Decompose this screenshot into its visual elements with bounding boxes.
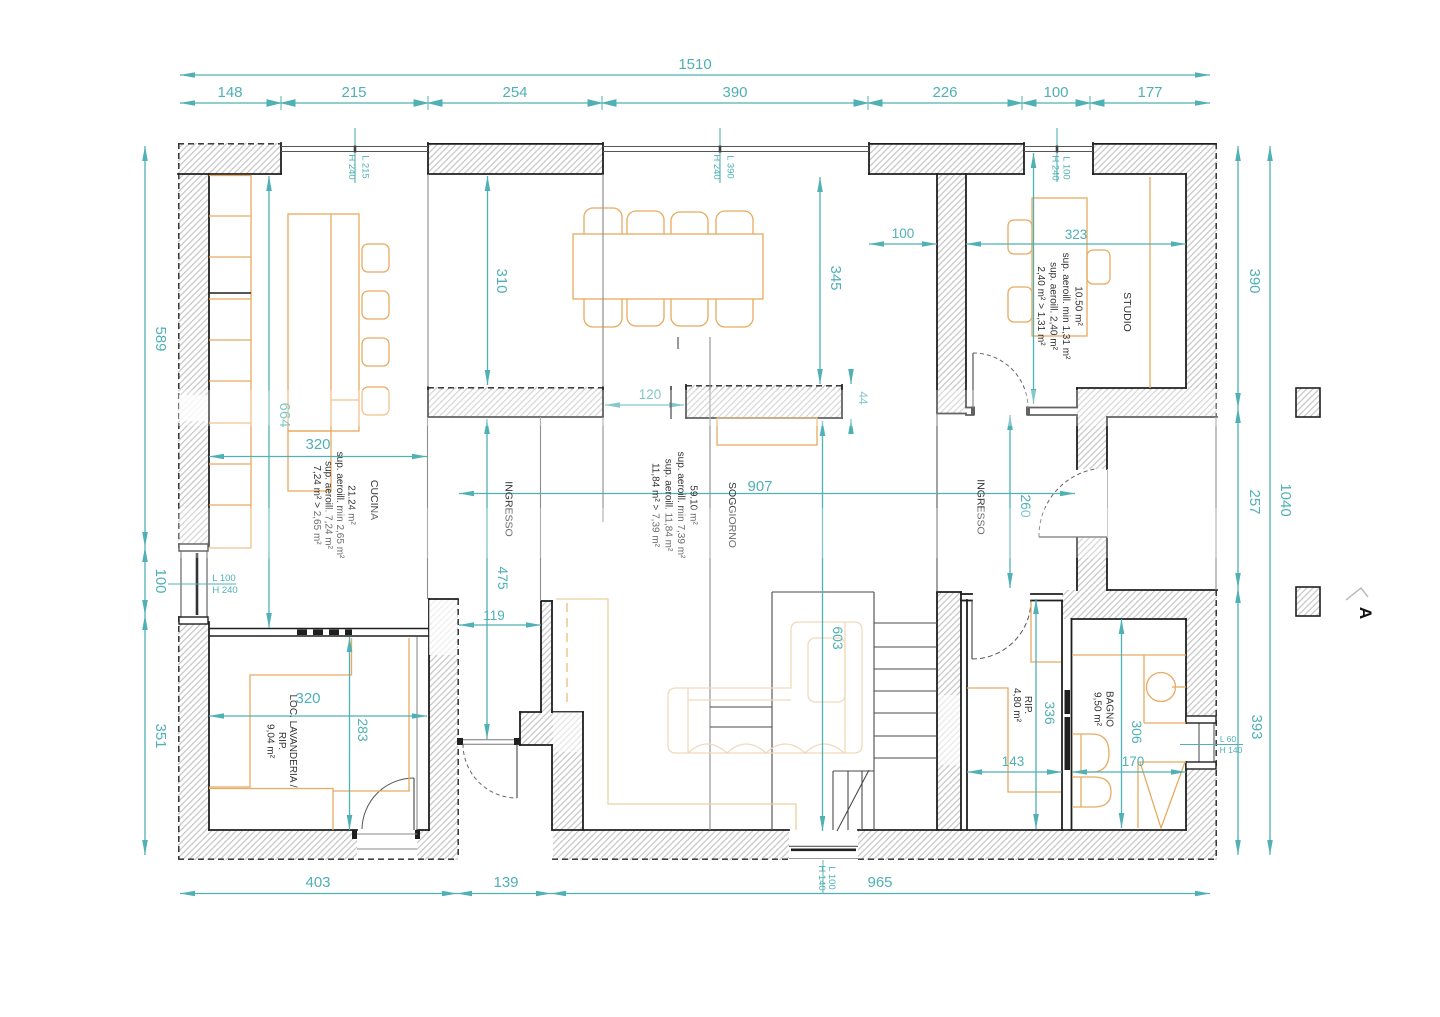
svg-text:BAGNO: BAGNO — [1104, 691, 1115, 727]
svg-text:sup. aeroill. 2,40 m²: sup. aeroill. 2,40 m² — [1048, 262, 1059, 350]
svg-text:403: 403 — [305, 874, 330, 891]
svg-text:320: 320 — [295, 690, 320, 707]
wall niche column upper — [1077, 417, 1107, 469]
interior dims — [209, 153, 1186, 831]
dim 1510 — [180, 74, 1210, 76]
wall bottom main — [553, 830, 789, 860]
svg-text:170: 170 — [1122, 754, 1145, 769]
svg-text:143: 143 — [1002, 754, 1025, 769]
treads upper flight — [874, 622, 937, 624]
outer edge bottom-left — [178, 858, 458, 860]
window end caps — [179, 544, 1216, 769]
svg-text:1510: 1510 — [678, 56, 711, 73]
boundary dining/soggiorno — [602, 174, 604, 387]
svg-text:100: 100 — [892, 226, 915, 241]
rip counters — [967, 602, 1061, 792]
svg-text:10.50 m²: 10.50 m² — [1073, 286, 1084, 326]
svg-text:306: 306 — [1129, 720, 1145, 744]
RIP west inner face — [966, 600, 968, 830]
wall bagno top mass — [1062, 590, 1217, 619]
svg-text:100: 100 — [1043, 84, 1068, 101]
outer edge top (top-left block dashed) — [178, 143, 281, 145]
svg-text:LOC. LAVANDERIA /: LOC. LAVANDERIA / — [287, 695, 298, 788]
svg-text:9,04 m²: 9,04 m² — [265, 724, 276, 759]
inner face top wall — [178, 173, 281, 175]
kitchen island — [288, 214, 359, 431]
bagno top face — [1072, 618, 1187, 620]
svg-text:H 240: H 240 — [1050, 155, 1061, 180]
svg-text:215: 215 — [341, 84, 366, 101]
svg-text:390: 390 — [722, 84, 747, 101]
window L60 bagno right wall — [1198, 723, 1200, 762]
shelf rungs — [710, 706, 772, 708]
inner face left wall — [208, 174, 210, 546]
svg-text:H 140: H 140 — [816, 865, 827, 890]
svg-text:RIP.: RIP. — [1022, 696, 1033, 714]
svg-text:L 100: L 100 — [1061, 156, 1072, 179]
studio desk — [1008, 177, 1150, 388]
outer edge left — [178, 143, 180, 548]
boundary kitchen/dining upper — [427, 174, 429, 387]
bottom wall inner face — [553, 829, 789, 831]
svg-text:L 60: L 60 — [1220, 734, 1237, 744]
extension tick below table — [677, 337, 679, 349]
dining table — [573, 234, 763, 299]
wall bottom-left west of door — [178, 830, 357, 860]
window labels — [168, 128, 1243, 893]
bidet — [1072, 777, 1111, 807]
svg-text:226: 226 — [932, 84, 957, 101]
RIP top thin wall — [961, 593, 972, 595]
mid wall left top edge dashed — [428, 387, 603, 389]
window L390 top — [603, 146, 869, 148]
outer edge lavanderia right (porch side) — [457, 599, 459, 859]
wall T ingresso2 upper — [937, 143, 966, 413]
stair cut diagonal — [837, 770, 869, 831]
kitchen counter left — [209, 176, 251, 549]
door niche/east entrance — [1039, 469, 1107, 537]
bagno fixtures — [1072, 655, 1186, 828]
wall right lower above window — [1186, 619, 1217, 723]
wall bottom-left east of door — [417, 830, 458, 860]
svg-text:393: 393 — [1248, 714, 1265, 739]
svg-text:H 240: H 240 — [711, 154, 722, 179]
soggiorno floor edge line — [556, 599, 796, 830]
lavanderia bottom inner face — [209, 829, 357, 831]
dim top row — [180, 102, 1210, 104]
wall right lower below window — [1186, 762, 1217, 860]
lavanderia counters — [209, 638, 409, 830]
toilet — [1072, 734, 1109, 772]
ticks + paired arrows at segment boundaries — [267, 96, 295, 110]
svg-text:323: 323 — [1065, 227, 1088, 242]
svg-text:A: A — [1356, 607, 1375, 619]
outer edge bottom main — [552, 858, 789, 860]
wall left lower — [178, 618, 209, 860]
wall soggiorno west lower — [552, 745, 583, 830]
outer edge right upper — [1215, 143, 1217, 417]
door studio — [971, 353, 1030, 416]
wall top-right block — [1093, 143, 1217, 174]
studio door wall thin faces — [966, 407, 973, 409]
T wall faces — [936, 174, 938, 413]
left dims — [144, 146, 146, 855]
wall mid left (kitchen/ingresso) — [428, 387, 603, 417]
kitchen counter divider black — [209, 292, 251, 294]
door rip — [972, 600, 1031, 659]
shower — [1137, 762, 1139, 828]
door main entrance (corridor top) — [457, 738, 520, 798]
svg-text:320: 320 — [305, 436, 330, 453]
svg-text:283: 283 — [355, 718, 371, 742]
svg-text:254: 254 — [502, 84, 527, 101]
tick for 120 dim — [670, 386, 672, 419]
RIP east / bagno west thin wall — [1061, 601, 1063, 831]
wall step block entrance — [520, 712, 583, 745]
wall top block 2 (dining) — [428, 143, 603, 174]
svg-text:H 240: H 240 — [212, 585, 237, 596]
svg-text:H 240: H 240 — [346, 154, 357, 179]
niche wall plane across door opening — [1107, 469, 1109, 538]
window L100 left wall — [180, 551, 182, 617]
svg-text:H 140: H 140 — [1220, 745, 1243, 755]
svg-text:L 390: L 390 — [725, 155, 736, 178]
svg-text:257: 257 — [1246, 489, 1263, 514]
treads lower flight — [833, 770, 874, 772]
mid wall right top edge dashed — [686, 385, 842, 387]
boundary ingresso/soggiorno — [540, 417, 542, 601]
svg-text:STUDIO: STUDIO — [1121, 292, 1133, 332]
mid wall right faces — [685, 385, 687, 418]
svg-text:603: 603 — [830, 626, 846, 650]
niche faces — [1107, 416, 1217, 418]
svg-text:119: 119 — [483, 608, 505, 623]
boundary soggiorno/ingresso2 — [936, 413, 938, 592]
bottom dims — [180, 893, 1210, 895]
boundary line over dining table — [602, 174, 604, 387]
corridor right wall faces — [540, 601, 542, 712]
outer edge right lower — [1215, 590, 1217, 859]
window L100 bottom wall — [789, 845, 858, 847]
svg-text:475: 475 — [495, 566, 511, 590]
wall right upper — [1186, 143, 1217, 417]
svg-text:100: 100 — [152, 568, 169, 593]
wall mid right — [686, 385, 842, 418]
wardrobe dashed line corridor — [566, 603, 568, 707]
svg-text:1040: 1040 — [1277, 483, 1294, 516]
wall left upper — [178, 143, 209, 548]
door bagno sliding bars — [1065, 690, 1071, 770]
wall top block 3 — [869, 143, 1024, 174]
wall niche column lower — [1077, 538, 1107, 590]
dining chairs — [584, 208, 753, 327]
svg-text:390: 390 — [1246, 268, 1263, 293]
svg-text:336: 336 — [1042, 701, 1058, 725]
svg-text:589: 589 — [152, 326, 169, 351]
window L100 top-right — [1024, 146, 1093, 148]
wall stair right / ingresso2 lower — [937, 592, 961, 833]
svg-text:148: 148 — [217, 84, 242, 101]
sideboard below mid wall — [717, 418, 817, 445]
bagno right inner face — [1185, 619, 1187, 723]
svg-text:sup. aeroill. min 1,31 m²: sup. aeroill. min 1,31 m² — [1060, 253, 1071, 360]
studio wardrobe line — [1149, 177, 1151, 388]
studio bottom wall face — [1077, 387, 1186, 389]
svg-text:4,80 m²: 4,80 m² — [1011, 688, 1022, 723]
svg-text:965: 965 — [867, 874, 892, 891]
svg-text:L 215: L 215 — [360, 155, 371, 178]
right dims — [1238, 146, 1270, 855]
stair right wall faces — [936, 592, 938, 830]
svg-text:351: 351 — [152, 723, 169, 748]
svg-text:907: 907 — [747, 478, 772, 495]
outer face top wall solid blocks — [428, 143, 603, 145]
svg-text:345: 345 — [827, 265, 844, 290]
lavanderia right wall faces — [428, 599, 430, 830]
svg-text:139: 139 — [493, 874, 518, 891]
svg-text:2,40 m² > 1,31 m²: 2,40 m² > 1,31 m² — [1035, 266, 1046, 346]
wall corridor right thin — [541, 601, 552, 712]
mid wall left faces — [427, 387, 429, 417]
wall bottom right of window — [858, 830, 1217, 860]
lavanderia inner lining — [416, 637, 418, 830]
svg-text:310: 310 — [493, 268, 510, 293]
svg-text:L 100: L 100 — [212, 573, 235, 584]
studio right inner face — [1185, 174, 1187, 388]
line center soggiorno — [709, 337, 711, 830]
boundary kitchen/ingresso — [427, 417, 429, 599]
svg-text:RIP.: RIP. — [276, 732, 287, 750]
svg-text:177: 177 — [1137, 84, 1162, 101]
wall studio bottom — [1077, 388, 1186, 417]
block end faces top — [280, 143, 282, 174]
kitchen chairs — [362, 244, 389, 272]
wall lavanderia right — [429, 599, 458, 858]
window L215 top — [281, 146, 428, 148]
wall top-left block — [178, 143, 281, 174]
svg-text:9,50 m²: 9,50 m² — [1092, 692, 1103, 727]
niche east thin edge — [1215, 417, 1217, 590]
door lavanderia exterior — [352, 778, 420, 849]
